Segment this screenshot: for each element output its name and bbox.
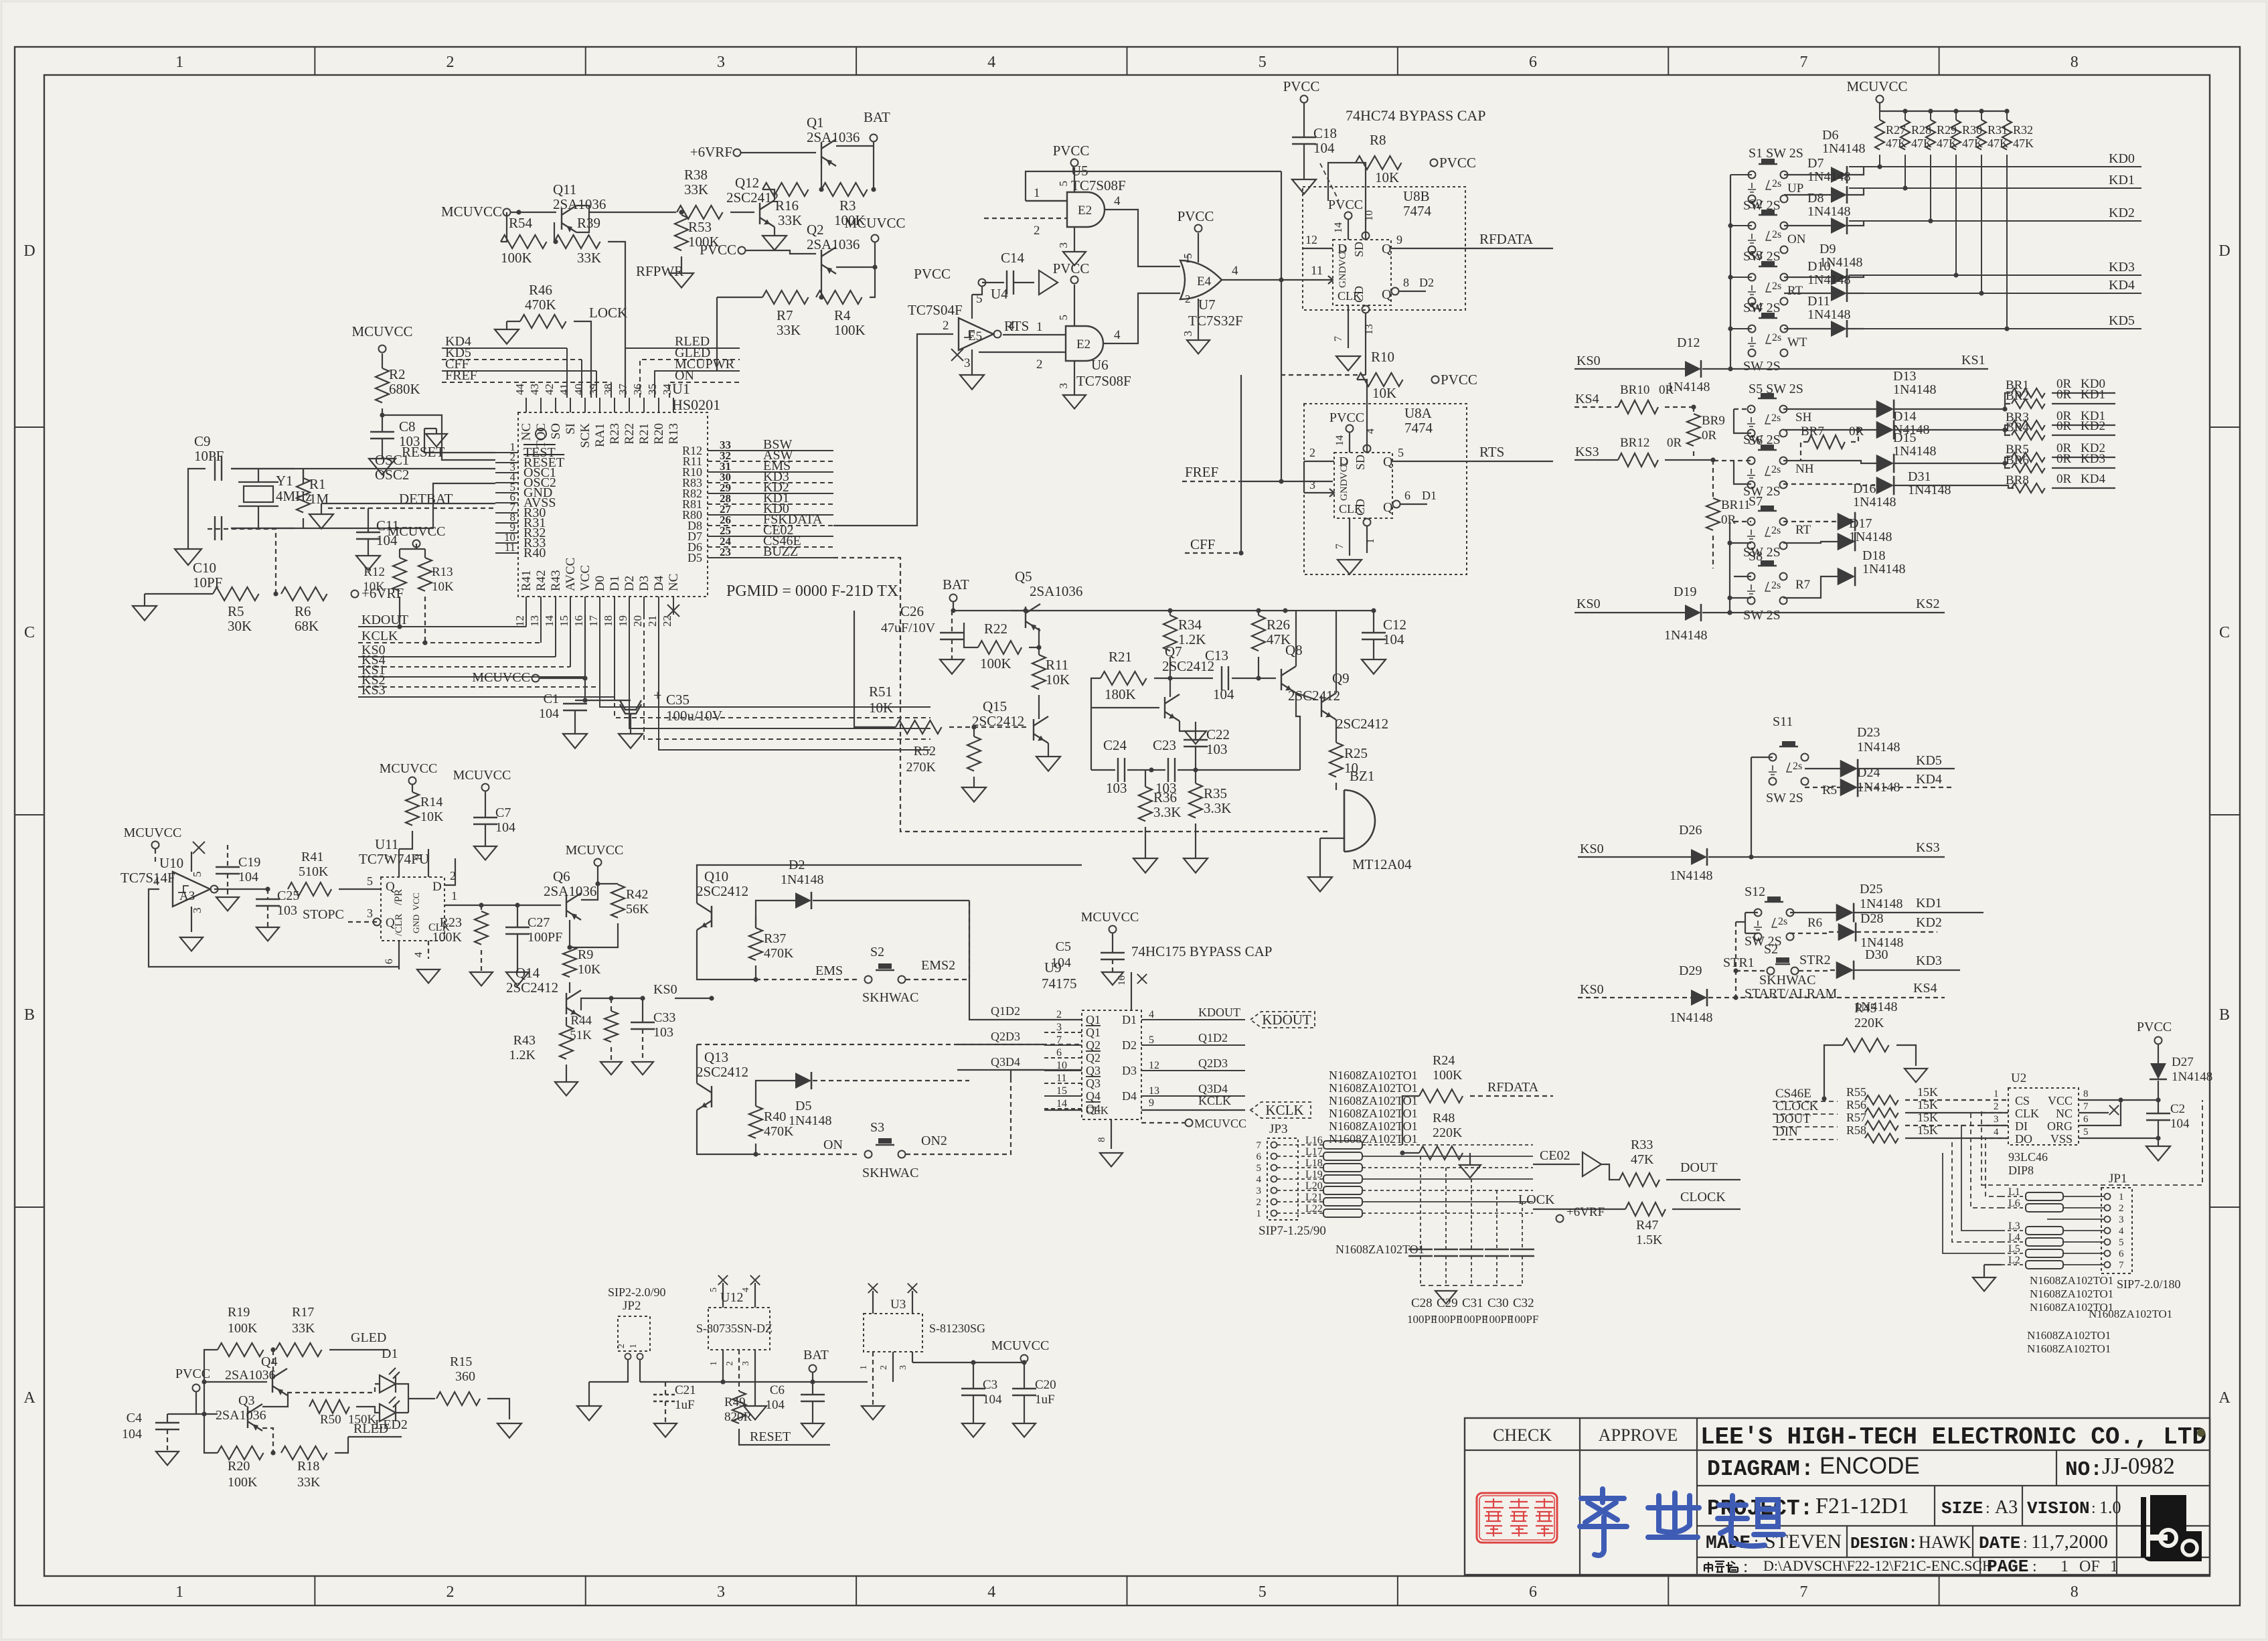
svg-text:2s: 2s (1772, 229, 1781, 240)
U9 CLK pin (1044, 1109, 1082, 1111)
U2 VCC wire (2079, 1099, 2121, 1101)
svg-text:6: 6 (1529, 1583, 1537, 1601)
U8B clk mark (1328, 276, 1333, 284)
resistor BR1 0R (2012, 388, 2045, 398)
svg-text:S8: S8 (1749, 549, 1763, 564)
svg-text:PVCC: PVCC (1328, 198, 1363, 212)
svg-text:S3: S3 (1749, 248, 1763, 263)
U7 pin3 gnd (1198, 299, 1199, 340)
svg-text:4: 4 (1257, 1174, 1262, 1185)
svg-text:DETBAT: DETBAT (399, 491, 453, 507)
svg-text:C30: C30 (1487, 1296, 1509, 1310)
resistor R19 100K (218, 1343, 264, 1356)
svg-text:Q9: Q9 (1332, 670, 1350, 686)
svg-text:R8: R8 (1370, 132, 1386, 148)
wire S7 to D16 (1783, 521, 1838, 522)
junction r48 (1400, 1150, 1404, 1155)
capacitor C10 10PF (215, 516, 222, 540)
svg-text:CD: CD (1354, 499, 1367, 516)
svg-text:C1: C1 (544, 692, 559, 706)
svg-text:Q10: Q10 (704, 868, 728, 884)
U2 NC wire (2079, 1112, 2109, 1113)
wire Q1 emitter dn (821, 163, 822, 189)
svg-text:Q4: Q4 (1086, 1089, 1101, 1103)
svg-text:L3: L3 (2008, 1221, 2020, 1232)
svg-text:MCUVCC: MCUVCC (472, 670, 530, 685)
svg-text:44: 44 (513, 384, 526, 396)
svg-text:RESET: RESET (750, 1429, 791, 1444)
node PVCC U4 (979, 279, 986, 287)
svg-text:Q4: Q4 (261, 1354, 277, 1369)
svg-text:OSC2: OSC2 (375, 467, 409, 483)
svg-text:MCUVCC: MCUVCC (991, 1338, 1050, 1353)
svg-text:R16: R16 (775, 198, 799, 214)
svg-text:DO: DO (2015, 1132, 2032, 1146)
capacitor C3 104 (961, 1389, 985, 1395)
wire q10 base (711, 906, 712, 927)
transistor Q2 2SA1036 (821, 247, 836, 274)
svg-text:D2: D2 (1419, 276, 1434, 289)
svg-text:Q: Q (1383, 455, 1393, 469)
svg-text:2: 2 (1309, 446, 1315, 459)
wire OSC2 (303, 469, 304, 483)
svg-text:104: 104 (1051, 955, 1071, 970)
junction d27 (2156, 1097, 2160, 1102)
svg-text:D1: D1 (382, 1346, 398, 1361)
svg-text:11: 11 (505, 541, 515, 554)
svg-text:PVCC: PVCC (1053, 143, 1090, 159)
node PVCC C18 (1301, 96, 1308, 103)
resistor R5 30K (213, 587, 259, 601)
svg-text:R28: R28 (1911, 123, 1931, 137)
svg-text:2s: 2s (1793, 761, 1802, 772)
ground C3 (962, 1423, 985, 1437)
junction r26 (1256, 676, 1261, 680)
U11 bottom pins (398, 941, 400, 969)
junction r20r18 (270, 1450, 275, 1455)
svg-text:CLOCK: CLOCK (1680, 1190, 1726, 1204)
filter gnd rail (1421, 1285, 1522, 1286)
svg-text:D27: D27 (2172, 1055, 2194, 1069)
svg-text:KS4: KS4 (1913, 981, 1937, 996)
svg-text:+: + (653, 687, 661, 704)
ground U2 (2146, 1146, 2170, 1161)
svg-text:R44: R44 (570, 1014, 592, 1028)
svg-text:S2: S2 (1749, 197, 1763, 212)
svg-text:SW 2S: SW 2S (1766, 791, 1803, 805)
svg-text:14: 14 (1334, 435, 1346, 446)
svg-text:RT: RT (1787, 284, 1803, 298)
svg-text:U8B: U8B (1403, 188, 1430, 204)
svg-text:1N4148: 1N4148 (1853, 495, 1896, 510)
U8A pin6 Qbar (1393, 501, 1400, 508)
switch S3 push-button (1748, 261, 1788, 305)
diode D12 1N4148 (1685, 360, 1701, 378)
svg-text:L18: L18 (1305, 1158, 1323, 1169)
svg-text:100K: 100K (834, 322, 866, 338)
svg-text:Q5: Q5 (1015, 568, 1032, 584)
svg-text:ON: ON (675, 368, 694, 383)
svg-text:4: 4 (413, 952, 424, 957)
capacitor C20 1uF (1012, 1389, 1036, 1395)
svg-text:4: 4 (1365, 428, 1376, 434)
junction r40 (753, 1152, 758, 1156)
svg-text:38: 38 (602, 384, 615, 395)
svg-text:L1: L1 (2008, 1186, 2020, 1198)
U7 out wire (1222, 279, 1333, 281)
wire R54 left (501, 212, 507, 242)
svg-text:HS0201: HS0201 (672, 396, 720, 413)
capacitor C22 103 (1184, 740, 1208, 747)
svg-text:D8: D8 (1807, 191, 1824, 206)
resistor R21 180K (1101, 672, 1147, 685)
node MCUVCC u3 (1021, 1355, 1028, 1362)
svg-text:104: 104 (766, 1398, 785, 1412)
svg-text:SIP2-2.0/90: SIP2-2.0/90 (608, 1285, 666, 1299)
svg-text:MT12A04: MT12A04 (1352, 856, 1412, 872)
svg-text:3: 3 (717, 54, 725, 71)
node MCUVCC C7 (482, 784, 489, 791)
wire ON to S3 (756, 1154, 860, 1155)
svg-text:2SC2412: 2SC2412 (696, 1064, 748, 1080)
svg-text:KD5: KD5 (1916, 753, 1942, 768)
svg-text:D30: D30 (1865, 947, 1888, 962)
ground C26 (940, 659, 964, 674)
svg-text:10K: 10K (420, 809, 444, 824)
svg-text:ON: ON (1787, 232, 1806, 246)
svg-text:6: 6 (1529, 54, 1537, 71)
U1 bottom pins 12-22 R41..NC (525, 597, 527, 615)
svg-text:L17: L17 (1305, 1146, 1323, 1158)
svg-text:L6: L6 (2008, 1198, 2020, 1209)
svg-text:R40: R40 (523, 546, 546, 560)
capacitor C26 47uF/10V (940, 633, 964, 639)
diode D23 1N4148 (1840, 759, 1858, 779)
svg-text:3: 3 (964, 356, 971, 370)
svg-text:R14: R14 (420, 795, 442, 809)
svg-text:OF: OF (2079, 1558, 2100, 1575)
svg-text:E5: E5 (968, 329, 982, 343)
wire vertical net 1914 (1281, 171, 1282, 481)
transistor Q9 2SC2412 (1321, 693, 1336, 720)
switch S4 push-button (1748, 313, 1788, 357)
U8A CLK pin3 (1304, 492, 1334, 493)
transistor Q1 2SA1036 (821, 139, 836, 166)
resistor R46 470K (520, 315, 566, 328)
S7 left stub (1734, 521, 1751, 522)
wire q13 collector (696, 1044, 698, 1083)
svg-text:R51: R51 (869, 684, 892, 700)
IC U3 S-81230SG (864, 1314, 922, 1352)
svg-text:JP2: JP2 (623, 1299, 641, 1313)
switch S2 EMS push-button (865, 963, 906, 984)
ground R53 (669, 273, 694, 288)
svg-text:15: 15 (1056, 1085, 1067, 1097)
svg-text:104: 104 (238, 870, 258, 884)
svg-text:7: 7 (384, 854, 395, 860)
svg-text:150K: 150K (348, 1413, 377, 1427)
svg-text:100K: 100K (501, 250, 532, 266)
resistor R38 33K (677, 206, 723, 219)
wire to R15 (408, 1398, 435, 1399)
svg-text:1: 1 (1034, 186, 1040, 200)
svg-text:KCLK: KCLK (1265, 1102, 1303, 1118)
svg-text:1: 1 (175, 54, 183, 71)
wire bat rail (953, 602, 1374, 611)
svg-text:FREF: FREF (1185, 464, 1218, 480)
svg-text:470K: 470K (764, 946, 794, 961)
svg-text:100K: 100K (432, 930, 463, 945)
svg-text:100u/10V: 100u/10V (666, 708, 722, 724)
svg-text:D18: D18 (1862, 548, 1885, 563)
svg-text:C8: C8 (399, 418, 416, 435)
svg-text:104: 104 (2170, 1117, 2190, 1131)
svg-text:SH: SH (1795, 410, 1812, 424)
svg-text:SW 2S: SW 2S (1743, 608, 1781, 623)
transistor Q14 2SC2412 (566, 990, 581, 1017)
svg-text:SD: SD (1354, 455, 1367, 470)
svg-text:5: 5 (1057, 181, 1070, 187)
svg-text:L21: L21 (1305, 1192, 1323, 1203)
svg-text:21: 21 (646, 615, 659, 627)
svg-text:7: 7 (1799, 1583, 1807, 1601)
wire S5b to D14 (1783, 429, 1877, 431)
svg-text:F21-12D1: F21-12D1 (1815, 1494, 1909, 1518)
svg-text:4: 4 (1114, 194, 1121, 208)
U6 pin3 gnd (1074, 361, 1075, 395)
svg-text:14: 14 (1056, 1098, 1067, 1109)
svg-text:R31: R31 (1988, 123, 2008, 137)
svg-text:D29: D29 (1679, 963, 1702, 978)
svg-text:KD3: KD3 (2109, 260, 2135, 275)
svg-text:C20: C20 (1035, 1378, 1056, 1392)
svg-text:7474: 7474 (1403, 203, 1432, 219)
svg-text:U6: U6 (1091, 357, 1109, 373)
svg-text:PVCC: PVCC (1053, 260, 1090, 277)
svg-text:KD1: KD1 (2109, 173, 2135, 187)
svg-text:TC7S08F: TC7S08F (1071, 177, 1126, 193)
ground AVSS (309, 514, 333, 529)
capacitor C19 (216, 867, 240, 874)
junction BR groups (2002, 406, 2007, 411)
svg-text:33K: 33K (684, 181, 708, 198)
svg-text:2s: 2s (1778, 916, 1787, 927)
capacitor C33 103 (631, 1022, 655, 1029)
svg-text:0R: 0R (2056, 388, 2072, 402)
svg-text:GLED: GLED (351, 1330, 386, 1345)
node MCUVCC C5 (1109, 926, 1117, 933)
svg-text:18: 18 (602, 615, 615, 627)
svg-text:R47: R47 (1636, 1218, 1658, 1233)
svg-text:L4: L4 (2008, 1232, 2020, 1243)
junction D29 (1733, 995, 1738, 1000)
U9 gnd pin8 (1111, 1119, 1112, 1149)
resistor R45 220K (1843, 1038, 1889, 1052)
svg-text:PVCC: PVCC (914, 266, 951, 282)
svg-text:35: 35 (646, 384, 659, 395)
svg-text:Q3: Q3 (238, 1393, 254, 1408)
svg-text:BR10: BR10 (1620, 383, 1649, 397)
svg-text:R22: R22 (984, 621, 1007, 637)
resistor R35 3.3K (1189, 783, 1202, 817)
wire BR8 out (2052, 487, 2115, 489)
svg-text:TC7S14F: TC7S14F (120, 870, 175, 886)
wire S4 to D11 (1784, 328, 1831, 329)
svg-text:R42: R42 (626, 887, 648, 902)
svg-text:R15: R15 (450, 1354, 472, 1369)
svg-text:7474: 7474 (1404, 420, 1433, 436)
IC U8B 7474 outer (1303, 187, 1465, 310)
svg-text:4: 4 (153, 874, 159, 888)
svg-text:R43: R43 (549, 570, 563, 591)
transistor Q6 2SA1036 (566, 893, 581, 920)
svg-text:KD4: KD4 (1916, 772, 1942, 787)
resistor R11b 10K (1032, 655, 1046, 689)
svg-text:C2: C2 (2170, 1102, 2185, 1116)
ground C20 (1013, 1423, 1036, 1437)
svg-text:N1608ZA102TO1: N1608ZA102TO1 (1329, 1119, 1418, 1133)
JP1 feed wires (1986, 1138, 2002, 1196)
svg-text:L19: L19 (1305, 1169, 1323, 1180)
S6 left stub (1714, 460, 1751, 461)
diode D11 1N4148 (1831, 320, 1847, 337)
inductors L16-L22 (1323, 1141, 1362, 1149)
wire bank rail (1880, 110, 2007, 112)
transistor Q4 2SA1036 (272, 1369, 287, 1395)
svg-text:1.2K: 1.2K (1178, 631, 1206, 647)
wire r31 buzz (854, 726, 892, 728)
wire Q1 to BAT (836, 142, 874, 146)
svg-text:MCUVCC: MCUVCC (1846, 78, 1907, 94)
resistor R54 100K (501, 235, 547, 248)
wire r21 right (1154, 678, 1213, 679)
U2 VSS wire (2079, 1138, 2158, 1139)
U10 gnd stub (191, 907, 192, 932)
svg-text:7: 7 (1257, 1140, 1262, 1151)
title block grid lines (1580, 1418, 1697, 1575)
svg-text:KS3: KS3 (1575, 445, 1599, 459)
svg-text:CLK: CLK (1086, 1104, 1109, 1117)
svg-text:D31: D31 (1908, 469, 1931, 484)
switch S2 STR push-button (1767, 957, 1799, 975)
resistor R25 10 (1329, 743, 1343, 777)
wire bat u12 (812, 1373, 813, 1382)
svg-text:R4: R4 (834, 307, 851, 323)
svg-text:C3: C3 (983, 1378, 997, 1392)
svg-text:33K: 33K (292, 1321, 315, 1336)
wire r15 right (487, 1399, 509, 1419)
svg-text:RTS: RTS (1479, 444, 1504, 460)
svg-text:DOUT: DOUT (1775, 1112, 1811, 1126)
wire R12 dn (399, 597, 400, 627)
x mark U10 (193, 842, 205, 854)
ground C27 (506, 972, 529, 986)
svg-text:7: 7 (1056, 1034, 1062, 1046)
svg-text:C4: C4 (127, 1411, 142, 1425)
bottom bus KDOUT KCLK KS0 KS4 KS1 KS2 KS3 (358, 626, 526, 627)
R37 wires (755, 917, 756, 928)
svg-text:L5: L5 (2008, 1243, 2020, 1255)
ground C1 (563, 734, 587, 749)
svg-text:KS1: KS1 (1961, 353, 1986, 368)
buzzer BZ1 MT12A04 (1344, 790, 1375, 852)
svg-text:D0: D0 (593, 576, 607, 591)
wire q3 base (262, 1428, 273, 1453)
svg-text:104: 104 (1313, 140, 1335, 156)
svg-text:NO:: NO: (2065, 1458, 2103, 1482)
svg-text:LEE'S HIGH-TECH ELECTRONIC CO.: LEE'S HIGH-TECH ELECTRONIC CO., LTD (1700, 1423, 2206, 1451)
transistor Q11 2SA1036 (562, 206, 576, 232)
wire led2 join (396, 1412, 408, 1413)
junction bat r3 (871, 187, 876, 191)
U12 top pins (722, 1283, 724, 1308)
ground C35 (619, 734, 643, 749)
wire S2 to D8 (1784, 225, 1831, 226)
S5 left stub (1734, 408, 1751, 410)
ground R46 (495, 329, 519, 344)
wire S5 to D13 (1783, 408, 1877, 410)
svg-text:R41: R41 (519, 570, 534, 591)
IC U8B inner (1333, 240, 1391, 305)
IC U9 74175 (1082, 1010, 1141, 1119)
svg-text:3: 3 (1056, 1022, 1062, 1033)
svg-text:START/ALRAM: START/ALRAM (1745, 986, 1838, 1001)
diode D16 1N4148 (1838, 512, 1855, 532)
svg-text:R20: R20 (228, 1459, 250, 1474)
diode LED2 (380, 1397, 400, 1421)
wire STR2 to D30 (1799, 970, 1837, 971)
node BAT mid (950, 595, 957, 602)
svg-text:2SA1036: 2SA1036 (807, 236, 860, 252)
wire D30 KD3 (1854, 969, 1960, 971)
junction C1 (582, 676, 587, 680)
wire led join (396, 1384, 408, 1413)
wire D12 to KS1 (1702, 368, 1988, 370)
diode D29 1N4148 (1691, 989, 1707, 1006)
svg-text:/PR: /PR (393, 889, 404, 905)
wire q9 base (1205, 769, 1300, 771)
svg-text:KD1: KD1 (2081, 388, 2105, 402)
ground C25 (256, 927, 279, 941)
svg-text:PAGE: PAGE (1987, 1557, 2028, 1577)
wire R49 reset (739, 1429, 830, 1445)
switch S11 push-button (1769, 741, 1809, 785)
junction r7r4 (819, 295, 823, 299)
resistor R36 3.3K (1139, 787, 1152, 821)
junction u10 out (265, 886, 270, 891)
svg-text:R9: R9 (578, 947, 593, 962)
svg-text:KS4: KS4 (1575, 392, 1599, 406)
svg-text:S6: S6 (1749, 433, 1763, 448)
svg-text:1N4148: 1N4148 (1849, 530, 1892, 544)
svg-text:2SC2412: 2SC2412 (696, 883, 748, 899)
svg-text:C10: C10 (193, 560, 216, 576)
ground R35 (1184, 858, 1208, 873)
ground C11 (356, 556, 380, 570)
C6 wires (812, 1382, 813, 1395)
svg-text:Q15: Q15 (983, 698, 1007, 714)
switch S3 ON push-button (865, 1138, 906, 1158)
svg-text:13: 13 (1149, 1085, 1159, 1097)
svg-text:WT: WT (1787, 335, 1807, 349)
svg-text:R39: R39 (577, 215, 600, 231)
svg-text:KD5: KD5 (2109, 313, 2135, 328)
resistor BR11 0R (1706, 498, 1720, 530)
svg-text:R27: R27 (1886, 123, 1906, 137)
svg-text:E2: E2 (1078, 204, 1092, 218)
svg-text:5: 5 (1149, 1034, 1154, 1046)
svg-text::: : (2023, 1535, 2028, 1552)
